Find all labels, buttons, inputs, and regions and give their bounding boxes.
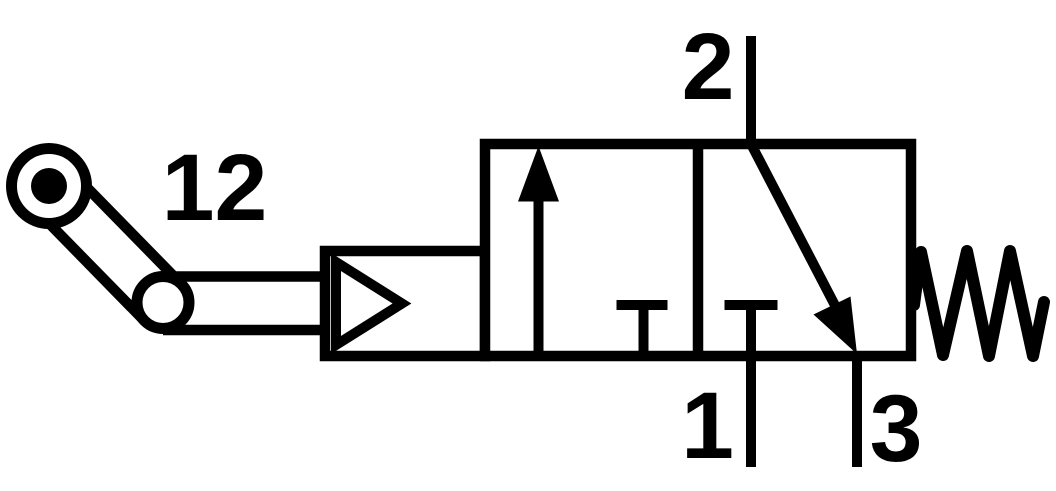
right blocked port T bar bbox=[725, 300, 778, 310]
lever arm diagonal line upper bbox=[68, 168, 182, 284]
lever horizontal line lower bbox=[163, 325, 330, 336]
lever horizontal line upper bbox=[163, 271, 330, 282]
return spring bbox=[914, 251, 1044, 356]
lever arm diagonal line lower bbox=[30, 204, 144, 321]
roller circle bbox=[12, 149, 87, 224]
pilot triangle bbox=[336, 262, 402, 345]
svg-text:12: 12 bbox=[162, 135, 268, 241]
flow path 2 to 3 shaft bbox=[751, 144, 840, 315]
flow path 2 to 3 arrow head bbox=[814, 297, 858, 355]
valve body bbox=[485, 144, 911, 356]
left blocked port T bar bbox=[617, 300, 668, 310]
port 1 line bbox=[746, 305, 756, 467]
svg-text:3: 3 bbox=[870, 376, 923, 482]
roller center dot bbox=[31, 168, 67, 204]
up arrow head bbox=[518, 146, 559, 202]
port 3 line bbox=[852, 351, 862, 467]
port 2 line bbox=[746, 36, 756, 149]
pilot actuator box bbox=[325, 251, 485, 356]
svg-text:2: 2 bbox=[682, 14, 735, 120]
up arrow shaft bbox=[534, 190, 544, 356]
position divider bbox=[693, 144, 704, 356]
left blocked port T stem bbox=[639, 305, 649, 356]
lever pivot circle bbox=[137, 277, 189, 329]
svg-text:1: 1 bbox=[681, 373, 734, 479]
